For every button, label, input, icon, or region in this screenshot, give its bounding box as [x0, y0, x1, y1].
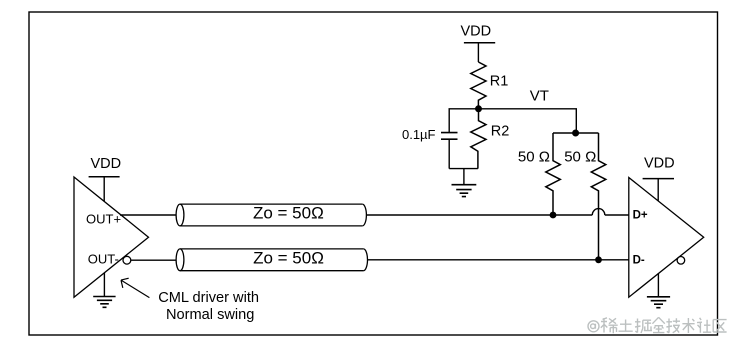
- svg-text:50 Ω: 50 Ω: [518, 148, 550, 165]
- capacitor C1 plates: [441, 133, 458, 140]
- junction node VT dot: [475, 105, 482, 112]
- wire top bar of 50ohm pair: [553, 132, 599, 134]
- svg-text:OUT-: OUT-: [88, 251, 119, 266]
- svg-text:VDD: VDD: [91, 156, 122, 172]
- power symbol VDD (receiver): [643, 155, 675, 201]
- svg-text:Normal swing: Normal swing: [166, 307, 254, 323]
- svg-text:VDD: VDD: [460, 24, 491, 40]
- transmission line T2 (bottom coax): [176, 249, 367, 271]
- resistor R1: [471, 62, 486, 109]
- driver op-amp U1 (CML driver triangle): [74, 177, 149, 297]
- wire T1 to hop (D+ net): [366, 214, 592, 216]
- annotation text CML driver: [158, 290, 259, 323]
- resistor R2: [471, 109, 486, 169]
- junction dot VT / 50ohm pair: [572, 130, 579, 137]
- svg-text:R1: R1: [490, 73, 509, 89]
- ground (driver): [93, 273, 115, 308]
- svg-text:D-: D-: [633, 254, 645, 266]
- wire bottom rail C1/R2: [449, 168, 478, 170]
- power symbol VDD (driver): [89, 156, 122, 202]
- svg-text:OUT+: OUT+: [86, 211, 121, 226]
- resistor 50ohm right: [591, 133, 606, 260]
- svg-text:Zo = 50Ω: Zo = 50Ω: [253, 204, 324, 223]
- wire hop to receiver D+: [605, 214, 629, 216]
- receiver op-amp U2 triangle: [629, 178, 704, 298]
- svg-text:50 Ω: 50 Ω: [564, 148, 596, 165]
- resistor 50ohm left: [546, 133, 561, 215]
- watermark: [588, 317, 727, 333]
- wire VT rail to 50ohm pair: [479, 109, 577, 133]
- junction dot D+ / left 50ohm: [550, 212, 557, 219]
- wire OUT+ to transmission line T1: [120, 214, 176, 216]
- svg-text:VT: VT: [530, 88, 549, 105]
- svg-text:CML driver with: CML driver with: [158, 290, 259, 306]
- inversion bubble on receiver hypotenuse: [677, 257, 685, 265]
- wire VT rail to capacitor C1: [449, 109, 478, 132]
- svg-text:VDD: VDD: [644, 155, 675, 171]
- power symbol VDD (termination top): [460, 24, 495, 63]
- transmission line T1 (top coax): [176, 204, 366, 226]
- ground (receiver): [647, 273, 670, 307]
- ground (bypass network): [452, 169, 477, 197]
- svg-text:Zo = 50Ω: Zo = 50Ω: [253, 249, 324, 268]
- svg-text:0.1µF: 0.1µF: [402, 127, 436, 142]
- junction dot D- / right 50ohm: [595, 256, 602, 263]
- wire OUT- to transmission line T2: [131, 259, 177, 261]
- annotation arrow: [121, 278, 149, 297]
- svg-text:R2: R2: [491, 123, 510, 139]
- wire T2 to receiver D-: [368, 259, 629, 261]
- svg-text:D+: D+: [633, 210, 648, 222]
- wire C1 bottom lead: [448, 139, 450, 168]
- inversion bubble on OUT-: [123, 256, 131, 264]
- wire hop over vertical (D+ net): [592, 209, 605, 215]
